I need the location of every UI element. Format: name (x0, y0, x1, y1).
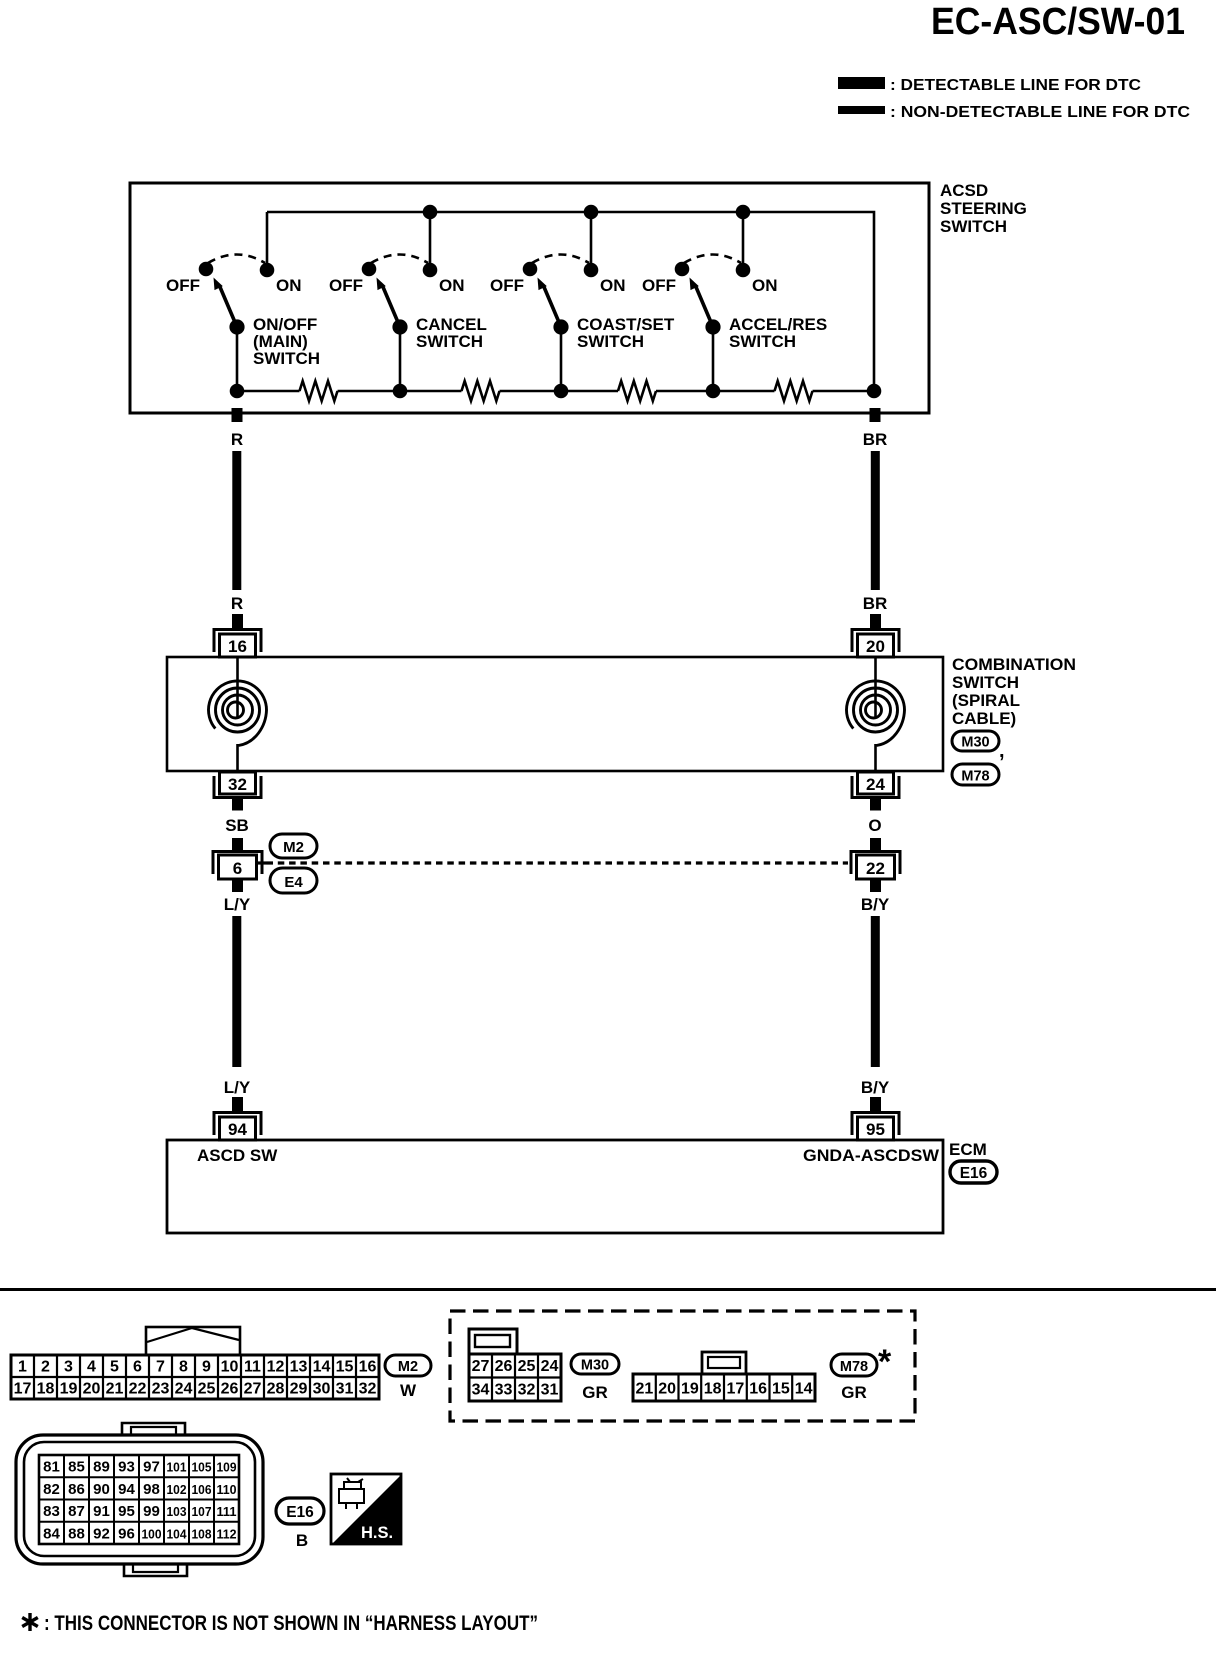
svg-text:24: 24 (175, 1381, 193, 1398)
svg-text:28: 28 (267, 1381, 285, 1398)
SW1 ON/OFF main switch: ON contact dot (260, 263, 275, 278)
svg-text:99: 99 (143, 1503, 160, 1520)
SW4 accel/res switch: OFF contact dot (675, 262, 690, 277)
junction dot on bottom bus at x=713 (706, 384, 721, 399)
legend detectable line swatch (838, 77, 885, 89)
SW3 coast/set switch: wire pivot to bottom bus (560, 327, 563, 391)
connector pin 22 (M2/E4 junction right): bottom wire stub (870, 879, 881, 892)
svg-text:ON: ON (276, 276, 302, 295)
svg-text:ON: ON (439, 276, 465, 295)
connector view M78: latch clip (702, 1352, 746, 1374)
svg-text:B/Y: B/Y (861, 1078, 890, 1097)
svg-text:SWITCH: SWITCH (940, 217, 1007, 236)
svg-text:20: 20 (83, 1381, 101, 1398)
SW4 accel/res switch: lever with arrow (690, 278, 714, 328)
svg-text:SWITCH: SWITCH (253, 349, 320, 368)
dashed detail box (450, 1311, 915, 1421)
svg-text:21: 21 (106, 1381, 124, 1398)
svg-text:108: 108 (192, 1526, 212, 1541)
connector pin 24 (combination switch bottom right): outer bracket (852, 776, 899, 798)
svg-text:18: 18 (37, 1381, 55, 1398)
combination switch (spiral cable) box (167, 657, 943, 771)
svg-text:31: 31 (541, 1382, 559, 1399)
connector pin 6 (M2/E4 junction): pin box (219, 855, 257, 879)
connector pin 20 (combination switch top right): outer bracket (852, 630, 899, 653)
svg-text:22: 22 (129, 1381, 147, 1398)
svg-text:81: 81 (43, 1459, 60, 1476)
spiral cable coil left (209, 657, 267, 771)
svg-text:104: 104 (167, 1526, 188, 1541)
wire: top bus (267, 212, 874, 391)
svg-text:SWITCH: SWITCH (577, 332, 644, 351)
SW4 accel/res switch: ON label (752, 276, 778, 295)
svg-text:OFF: OFF (642, 276, 676, 295)
junction dot on bottom bus at x=237 (230, 384, 245, 399)
connector pin 6 (M2/E4 junction): bottom wire stub (232, 879, 243, 892)
label BR (upper) (863, 430, 888, 449)
svg-text:,: , (999, 740, 1005, 762)
SW3 coast/set switch: drop wire from bus to ON contact (590, 212, 593, 270)
SW4 accel/res switch: dashed throw arc (684, 255, 741, 264)
SW2 cancel switch: OFF contact dot (362, 262, 377, 277)
connector oval E4 (junction) (270, 868, 317, 893)
svg-text:26: 26 (495, 1358, 513, 1375)
label W (M2 colour) (400, 1381, 417, 1400)
junction dot on bottom bus at x=561 (554, 384, 569, 399)
svg-text:18: 18 (704, 1381, 722, 1398)
label GR (M78 colour) (841, 1383, 867, 1402)
SW4 accel/res switch: drop wire from bus to ON contact (742, 212, 745, 270)
svg-text:SWITCH: SWITCH (416, 332, 483, 351)
combination switch label (952, 655, 1076, 728)
connector view M2: pin grid 1-32 (11, 1355, 379, 1399)
svg-text:E16: E16 (960, 1165, 988, 1182)
svg-text:O: O (868, 816, 881, 835)
connector oval M30 (view) (571, 1354, 619, 1374)
svg-text:(SPIRAL: (SPIRAL (952, 691, 1020, 710)
SW3 coast/set switch: ON label (600, 276, 626, 295)
svg-text:ON: ON (600, 276, 626, 295)
svg-text:26: 26 (221, 1381, 239, 1398)
junction dot on bottom bus at x=874 (867, 384, 882, 399)
svg-text:84: 84 (43, 1525, 60, 1542)
separator line (0, 1288, 1216, 1291)
label B/Y (lower) (861, 1078, 890, 1097)
svg-text:90: 90 (93, 1481, 110, 1498)
wire: bottom bus segments (237, 390, 874, 393)
SW2 cancel switch: ON contact dot (423, 263, 438, 278)
svg-text:: DETECTABLE LINE FOR DTC: : DETECTABLE LINE FOR DTC (890, 77, 1141, 94)
wire stub exit left (R) (232, 408, 243, 422)
svg-text:25: 25 (518, 1358, 536, 1375)
footnote asterisk star (22, 1613, 38, 1631)
svg-text:24: 24 (541, 1358, 559, 1375)
svg-text:23: 23 (152, 1381, 170, 1398)
svg-text:97: 97 (143, 1459, 160, 1476)
connector oval M30 (combination switch) (952, 731, 999, 751)
svg-text:OFF: OFF (329, 276, 363, 295)
svg-text:SWITCH: SWITCH (729, 332, 796, 351)
connector pin 16 (combination switch top left): pin box (220, 634, 256, 657)
svg-text:27: 27 (472, 1358, 490, 1375)
svg-text:33: 33 (495, 1382, 513, 1399)
SW1 ON/OFF main switch: OFF contact dot (199, 262, 214, 277)
svg-text:SWITCH: SWITCH (952, 673, 1019, 692)
svg-text:102: 102 (167, 1482, 187, 1497)
wire R thick (detectable) (232, 451, 241, 590)
comma between M30 and M78 (999, 740, 1005, 762)
SW2 cancel switch: ON label (439, 276, 465, 295)
legend non-detectable line swatch (838, 106, 885, 114)
svg-text:94: 94 (228, 1120, 247, 1139)
svg-text:105: 105 (192, 1460, 212, 1475)
wire B/Y thick (detectable) (871, 916, 880, 1067)
svg-text:M2: M2 (398, 1359, 418, 1375)
svg-text:ACSD: ACSD (940, 181, 988, 200)
connector pin 95 (ECM): wire stub (870, 1097, 881, 1111)
svg-text:92: 92 (93, 1525, 110, 1542)
svg-text:BR: BR (863, 430, 888, 449)
connector view E16: shell (16, 1423, 263, 1576)
svg-text:16: 16 (228, 637, 247, 656)
asterisk marker for M78 (878, 1343, 892, 1381)
svg-text:OFF: OFF (166, 276, 200, 295)
svg-text:20: 20 (866, 637, 885, 656)
connector oval M2 (view) (385, 1355, 431, 1376)
svg-text:GNDA-ASCDSW: GNDA-ASCDSW (803, 1146, 940, 1165)
svg-text:GR: GR (841, 1383, 867, 1402)
connector view M30: pin grid (469, 1354, 561, 1401)
SW1 ON/OFF main switch: ON label (276, 276, 302, 295)
svg-text:101: 101 (167, 1460, 187, 1475)
connector pin 22 (M2/E4 junction right): pin box (857, 855, 895, 879)
svg-text:H.S.: H.S. (361, 1524, 393, 1542)
svg-text:21: 21 (636, 1381, 654, 1398)
SW4 accel/res switch: OFF label (642, 276, 676, 295)
svg-text:88: 88 (68, 1525, 85, 1542)
label L/Y (upper) (224, 895, 251, 914)
connector oval E16 (ECM) (950, 1161, 997, 1183)
svg-text:L/Y: L/Y (224, 1078, 251, 1097)
junction dot on bottom bus at x=400 (393, 384, 408, 399)
svg-text:22: 22 (866, 859, 885, 878)
svg-text:17: 17 (727, 1381, 745, 1398)
label O (868, 816, 881, 835)
svg-text:OFF: OFF (490, 276, 524, 295)
label R (upper) (231, 430, 243, 449)
svg-text:M2: M2 (283, 839, 304, 856)
svg-text:85: 85 (68, 1459, 85, 1476)
svg-text:24: 24 (866, 775, 885, 794)
svg-text:M30: M30 (581, 1358, 609, 1374)
spiral cable coil right (847, 657, 905, 771)
SW4 accel/res switch: ON contact dot (736, 263, 751, 278)
label GR (M30 colour) (582, 1383, 608, 1402)
connector pin 22 (M2/E4 junction right): top wire stub (870, 838, 881, 851)
svg-text:17: 17 (14, 1381, 32, 1398)
svg-text:B/Y: B/Y (861, 895, 890, 914)
connector pin 94 (ECM): wire stub (232, 1097, 243, 1111)
svg-text:98: 98 (143, 1481, 160, 1498)
SW2 cancel switch: pivot dot (392, 319, 407, 334)
svg-text:: NON-DETECTABLE LINE FOR DTC: : NON-DETECTABLE LINE FOR DTC (890, 104, 1190, 121)
svg-text:W: W (400, 1381, 417, 1400)
svg-text:16: 16 (749, 1381, 767, 1398)
connector pin 16 (combination switch top left): wire stub (232, 614, 243, 628)
label L/Y (lower) (224, 1078, 251, 1097)
svg-text:25: 25 (198, 1381, 216, 1398)
connector pin 32 (combination switch bottom left): pin box (220, 772, 256, 794)
svg-text:95: 95 (118, 1503, 135, 1520)
connector view M2: latch clip (146, 1327, 240, 1355)
connector oval E16 (view) (276, 1498, 324, 1524)
svg-text:5: 5 (110, 1359, 119, 1376)
svg-text:20: 20 (658, 1381, 676, 1398)
svg-text:95: 95 (866, 1120, 885, 1139)
svg-text:6: 6 (233, 859, 242, 878)
svg-text:29: 29 (290, 1381, 308, 1398)
label BR (lower) (863, 594, 888, 613)
SW2 cancel switch: drop wire from bus to ON contact (429, 212, 432, 270)
svg-text:91: 91 (93, 1503, 110, 1520)
svg-text:7: 7 (156, 1359, 165, 1376)
resistor R4 in steering switch (775, 381, 813, 401)
ECM box (167, 1140, 943, 1233)
connector pin 32 (combination switch bottom left): wire stub (232, 798, 243, 811)
SW3 coast/set switch: lever with arrow (538, 278, 562, 328)
connector pin 95 (ECM): pin box (858, 1117, 894, 1140)
SW4 accel/res switch: wire pivot to bottom bus (712, 327, 715, 391)
svg-text:32: 32 (359, 1381, 377, 1398)
SW3 coast/set switch: OFF contact dot (523, 262, 538, 277)
label SB (225, 816, 249, 835)
connector pin 6 (M2/E4 junction): outer bracket (213, 852, 262, 875)
svg-text:*: * (878, 1343, 892, 1381)
SW1 ON/OFF main switch: wire pivot to bottom bus (236, 327, 239, 391)
svg-text:27: 27 (244, 1381, 262, 1398)
SW1 ON/OFF main switch: dashed throw arc (208, 255, 265, 264)
svg-text:4: 4 (87, 1359, 96, 1376)
label ECM (949, 1140, 987, 1159)
connector pin 16 (combination switch top left): outer bracket (214, 630, 261, 653)
svg-text:3: 3 (64, 1359, 73, 1376)
SW2 cancel switch: lever with arrow (377, 278, 401, 328)
svg-text:34: 34 (472, 1382, 490, 1399)
ACSD steering switch label (940, 181, 1027, 236)
wire L/Y thick (detectable) (232, 916, 241, 1067)
svg-text:8: 8 (179, 1359, 188, 1376)
svg-text:R: R (231, 430, 243, 449)
svg-text:86: 86 (68, 1481, 85, 1498)
svg-text:M30: M30 (961, 735, 989, 751)
title EC-ASC/SW-01 (931, 1, 1185, 43)
svg-text:ON: ON (752, 276, 778, 295)
connector pin 94 (ECM): pin box (220, 1117, 256, 1140)
svg-text:R: R (231, 594, 243, 613)
svg-text:30: 30 (313, 1381, 331, 1398)
svg-text:9: 9 (202, 1359, 211, 1376)
SW1 ON/OFF main switch: lever with arrow (214, 278, 238, 328)
label R (lower) (231, 594, 243, 613)
label ASCD SW (197, 1146, 278, 1165)
connector pin 6 (M2/E4 junction): top wire stub (232, 838, 243, 851)
SW3 coast/set switch: dashed throw arc (532, 255, 589, 264)
svg-text:BR: BR (863, 594, 888, 613)
svg-text:EC-ASC/SW-01: EC-ASC/SW-01 (931, 1, 1185, 43)
svg-text:82: 82 (43, 1481, 60, 1498)
svg-text:94: 94 (118, 1481, 135, 1498)
svg-text:COMBINATION: COMBINATION (952, 655, 1076, 674)
svg-text:M78: M78 (961, 769, 989, 785)
svg-text:14: 14 (795, 1381, 813, 1398)
SW2 cancel switch: OFF label (329, 276, 363, 295)
svg-text:111: 111 (217, 1504, 237, 1519)
svg-text:106: 106 (192, 1482, 212, 1497)
H.S. (harness side) icon (331, 1474, 401, 1544)
svg-text:112: 112 (217, 1526, 237, 1541)
svg-text:E4: E4 (284, 874, 303, 891)
label B/Y (upper) (861, 895, 890, 914)
SW1 ON/OFF main switch: OFF label (166, 276, 200, 295)
resistor R3 in steering switch (618, 381, 656, 401)
svg-text:100: 100 (142, 1526, 162, 1541)
svg-text:96: 96 (118, 1525, 135, 1542)
connector view E16: pin grid 81-112 (39, 1455, 239, 1544)
resistor R1 in steering switch (300, 381, 338, 401)
svg-text:1: 1 (18, 1359, 27, 1376)
svg-text:ASCD SW: ASCD SW (197, 1146, 278, 1165)
SW2 cancel switch: dashed throw arc (371, 255, 428, 264)
connector view M30: latch clip (469, 1329, 517, 1354)
svg-text:M78: M78 (840, 1359, 868, 1375)
dashed link wire between pin 6 and pin 22 (257, 861, 849, 864)
svg-text:83: 83 (43, 1503, 60, 1520)
connector pin 20 (combination switch top right): pin box (858, 634, 894, 657)
SW3 coast/set switch: ON contact dot (584, 263, 599, 278)
connector pin 95 (ECM): outer bracket (852, 1113, 899, 1136)
SW2 cancel switch: wire pivot to bottom bus (399, 327, 402, 391)
svg-text:103: 103 (167, 1504, 187, 1519)
svg-text:14: 14 (313, 1359, 331, 1376)
SW3 coast/set switch: pivot dot (553, 319, 568, 334)
SW1 ON/OFF main switch: name label (253, 315, 320, 368)
label GNDA-ASCDSW (803, 1146, 940, 1165)
svg-text:10: 10 (221, 1359, 239, 1376)
footnote text (44, 1612, 538, 1635)
connector pin 22 (M2/E4 junction right): outer bracket (851, 852, 900, 875)
connector oval M78 (combination switch) (952, 764, 999, 785)
svg-text:STEERING: STEERING (940, 199, 1027, 218)
junction dot on top bus at x=430 (423, 205, 438, 220)
svg-text:31: 31 (336, 1381, 354, 1398)
svg-text:32: 32 (518, 1382, 536, 1399)
SW3 coast/set switch: OFF label (490, 276, 524, 295)
svg-text:16: 16 (359, 1359, 377, 1376)
resistor R2 in steering switch (462, 381, 500, 401)
connector pin 94 (ECM): outer bracket (214, 1113, 261, 1136)
svg-text:87: 87 (68, 1503, 85, 1520)
SW2 cancel switch: name label (416, 315, 487, 351)
SW3 coast/set switch: name label (577, 315, 675, 351)
ACSD steering switch box (130, 183, 929, 413)
wire stub exit right (BR) (870, 408, 881, 422)
connector pin 32 (combination switch bottom left): outer bracket (214, 776, 261, 798)
connector pin 24 (combination switch bottom right): wire stub (870, 798, 881, 811)
svg-text:107: 107 (192, 1504, 212, 1519)
svg-text:L/Y: L/Y (224, 895, 251, 914)
SW1 ON/OFF main switch: drop wire from bus to ON contact (266, 212, 269, 270)
svg-text:ECM: ECM (949, 1140, 987, 1159)
svg-text:B: B (296, 1531, 308, 1550)
svg-text:12: 12 (267, 1359, 285, 1376)
svg-text:32: 32 (228, 775, 247, 794)
svg-text:109: 109 (217, 1460, 237, 1475)
svg-text:13: 13 (290, 1359, 308, 1376)
svg-text:15: 15 (772, 1381, 790, 1398)
junction dot on top bus at x=743 (736, 205, 751, 220)
svg-text:E16: E16 (286, 1504, 314, 1521)
svg-text:CABLE): CABLE) (952, 709, 1016, 728)
connector oval M78 (view) (831, 1354, 877, 1376)
svg-text:GR: GR (582, 1383, 608, 1402)
svg-text:19: 19 (60, 1381, 78, 1398)
legend non-detectable line label (890, 104, 1190, 121)
svg-text:2: 2 (41, 1359, 50, 1376)
connector oval M2 (junction) (270, 834, 317, 858)
svg-text:6: 6 (133, 1359, 142, 1376)
connector pin 24 (combination switch bottom right): pin box (858, 772, 894, 794)
svg-text:11: 11 (244, 1359, 261, 1376)
connector view M78: pin row (633, 1374, 815, 1401)
wire BR thick (detectable) (871, 451, 880, 590)
svg-text:SB: SB (225, 816, 249, 835)
SW4 accel/res switch: name label (729, 315, 827, 351)
connector pin 20 (combination switch top right): wire stub (870, 614, 881, 628)
svg-text:89: 89 (93, 1459, 110, 1476)
legend detectable line label (890, 77, 1141, 94)
svg-text:19: 19 (681, 1381, 699, 1398)
svg-text:: THIS CONNECTOR IS NOT SHOWN: : THIS CONNECTOR IS NOT SHOWN IN “HARNES… (44, 1612, 538, 1635)
svg-text:93: 93 (118, 1459, 135, 1476)
junction dot on top bus at x=591 (584, 205, 599, 220)
SW1 ON/OFF main switch: pivot dot (229, 319, 244, 334)
svg-text:15: 15 (336, 1359, 354, 1376)
label B (E16 colour) (296, 1531, 308, 1550)
svg-text:110: 110 (217, 1482, 237, 1497)
SW4 accel/res switch: pivot dot (705, 319, 720, 334)
